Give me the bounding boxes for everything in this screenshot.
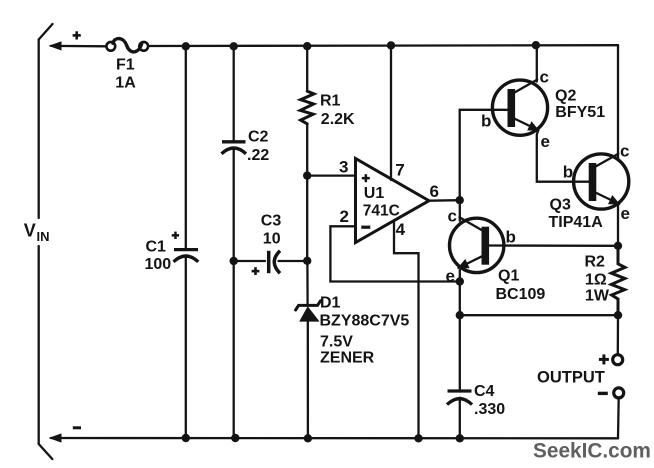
node dot top rail C2 (230, 42, 238, 50)
svg-text:C3: C3 (261, 212, 282, 229)
svg-text:2: 2 (340, 207, 349, 226)
wire pin3 (307, 174, 355, 176)
svg-text:7.5V: 7.5V (320, 334, 353, 351)
wire D1 to bottom rail (307, 322, 309, 438)
wire C3 right (279, 260, 308, 262)
op-amp U1 (356, 159, 430, 243)
svg-text:BZY88C7V5: BZY88C7V5 (320, 313, 410, 330)
svg-text:3: 3 (339, 158, 348, 177)
svg-text:6: 6 (430, 182, 439, 201)
svg-text:IN: IN (37, 229, 50, 244)
svg-text:e: e (541, 132, 550, 151)
node dot pin6 (456, 196, 464, 204)
svg-text:C4: C4 (474, 383, 495, 400)
capacitor C2 (222, 142, 247, 154)
svg-text:.330: .330 (474, 401, 505, 418)
svg-text:R1: R1 (320, 93, 341, 110)
wire bottom rail with arrow (49, 433, 619, 442)
wire C2 branch lower (233, 148, 235, 438)
wire Q1 collector up to pin6 junction (459, 200, 461, 221)
svg-text:10: 10 (263, 231, 281, 248)
node dot bottom rail D1 (304, 434, 312, 442)
svg-text:BFY51: BFY51 (555, 104, 605, 121)
node dot top rail Q2 collector (532, 41, 540, 49)
wire C3 junction to D1 (306, 261, 309, 305)
transistor Q2 (492, 80, 547, 136)
svg-text:SeekIC.com: SeekIC.com (533, 439, 651, 462)
fuse F1 (106, 39, 148, 52)
transistor Q3 (574, 154, 629, 209)
wire C3 left (234, 260, 265, 262)
wire Q1 emitter down (459, 270, 461, 391)
wire left rail bottom tick (39, 444, 53, 459)
node dot bottom rail C2 (231, 434, 239, 442)
wire Q3 emitter down (617, 204, 619, 246)
node dot bottom rail C4 (456, 434, 464, 442)
wire top rail with arrow (49, 41, 619, 50)
transistor Q1 (450, 217, 504, 272)
svg-text:Q1: Q1 (498, 267, 519, 284)
svg-text:BC109: BC109 (496, 286, 546, 303)
node dot R2 bottom (614, 311, 622, 319)
svg-text:e: e (446, 266, 455, 285)
svg-text:2.2K: 2.2K (321, 111, 355, 128)
wire R1 D1 branch top (306, 46, 308, 91)
wire Q2 emitter to Q3 base (537, 131, 589, 182)
wire pin4 to bottom rail (394, 222, 419, 438)
node VIN left rail (39, 24, 53, 459)
wire right rail top to Q3 collector (617, 45, 619, 159)
label output minus sign (598, 392, 608, 395)
wire C1 branch lower (185, 256, 187, 439)
svg-text:ZENER: ZENER (320, 350, 375, 367)
svg-text:.22: .22 (247, 147, 269, 164)
svg-text:b: b (563, 163, 573, 182)
svg-text:C1: C1 (146, 239, 167, 256)
svg-text:TIP41A: TIP41A (549, 214, 604, 231)
svg-text:R2: R2 (585, 253, 606, 270)
wire R2 bottom to C4 junction (460, 314, 618, 316)
wire left rail top tick (39, 24, 53, 40)
wire output minus to bottom rail (617, 398, 620, 439)
wire R1 to C3 junction (306, 124, 308, 260)
svg-text:Q3: Q3 (550, 197, 571, 214)
capacitor C1 (174, 250, 199, 262)
wire left rail upper (38, 40, 40, 219)
wire pin2 feedback (330, 226, 459, 281)
wire pin6 (429, 199, 460, 202)
label VIN (24, 221, 50, 245)
svg-text:1Ω: 1Ω (585, 271, 607, 288)
label output plus sign (599, 358, 609, 361)
svg-text:c: c (620, 142, 629, 161)
label C3 plus (252, 270, 260, 273)
svg-text:1A: 1A (115, 75, 136, 92)
svg-text:OUTPUT: OUTPUT (537, 368, 605, 386)
node dot pin3 R1 (303, 171, 311, 179)
node dot C3 right (303, 257, 311, 265)
node dot bottom rail pin4 (414, 434, 422, 442)
node dot top rail pin7 (387, 41, 395, 49)
svg-text:c: c (448, 207, 457, 226)
node dot bottom rail C1 (182, 434, 190, 442)
node dot Q1 base right rail (614, 242, 622, 250)
svg-text:1W: 1W (585, 287, 610, 304)
label C1 plus (172, 234, 179, 237)
node dot top rail R1 (303, 42, 311, 50)
node dot Q1 emitter feedback (456, 277, 464, 285)
terminal output plus (613, 355, 623, 365)
label minus bottom left (73, 426, 81, 429)
wire Q2 collector to top rail (536, 45, 538, 81)
svg-text:Q2: Q2 (555, 87, 576, 104)
svg-text:100: 100 (145, 256, 172, 273)
svg-text:b: b (481, 112, 491, 131)
capacitor C4 (447, 391, 472, 405)
svg-text:C2: C2 (248, 129, 269, 146)
capacitor C3 (269, 251, 280, 273)
svg-text:V: V (24, 221, 36, 241)
svg-text:U1: U1 (364, 185, 385, 202)
svg-text:e: e (621, 204, 630, 223)
zener D1 (296, 301, 321, 322)
resistor R2 (611, 246, 625, 315)
svg-text:4: 4 (396, 220, 406, 239)
wire output plus stub (617, 315, 620, 354)
node dot C4 top (456, 311, 464, 319)
node dot C3 left (230, 257, 238, 265)
node dot top rail C1 (182, 42, 190, 50)
svg-text:D1: D1 (320, 295, 341, 312)
svg-text:c: c (540, 67, 549, 86)
resistor R1 (300, 91, 314, 124)
wire C2 branch upper (233, 46, 235, 141)
wire left rail lower (38, 246, 40, 444)
wire C1 branch upper (185, 46, 187, 249)
svg-text:741C: 741C (363, 203, 400, 220)
wire pin6 junction up to Q2 base (460, 110, 508, 200)
wire Q1 base to right rail (489, 244, 618, 247)
svg-text:7: 7 (395, 160, 404, 179)
label plus top left (73, 34, 81, 37)
wire pin7 (390, 45, 392, 180)
svg-text:F1: F1 (116, 57, 135, 74)
svg-text:b: b (506, 227, 516, 246)
terminal output minus (614, 388, 624, 398)
